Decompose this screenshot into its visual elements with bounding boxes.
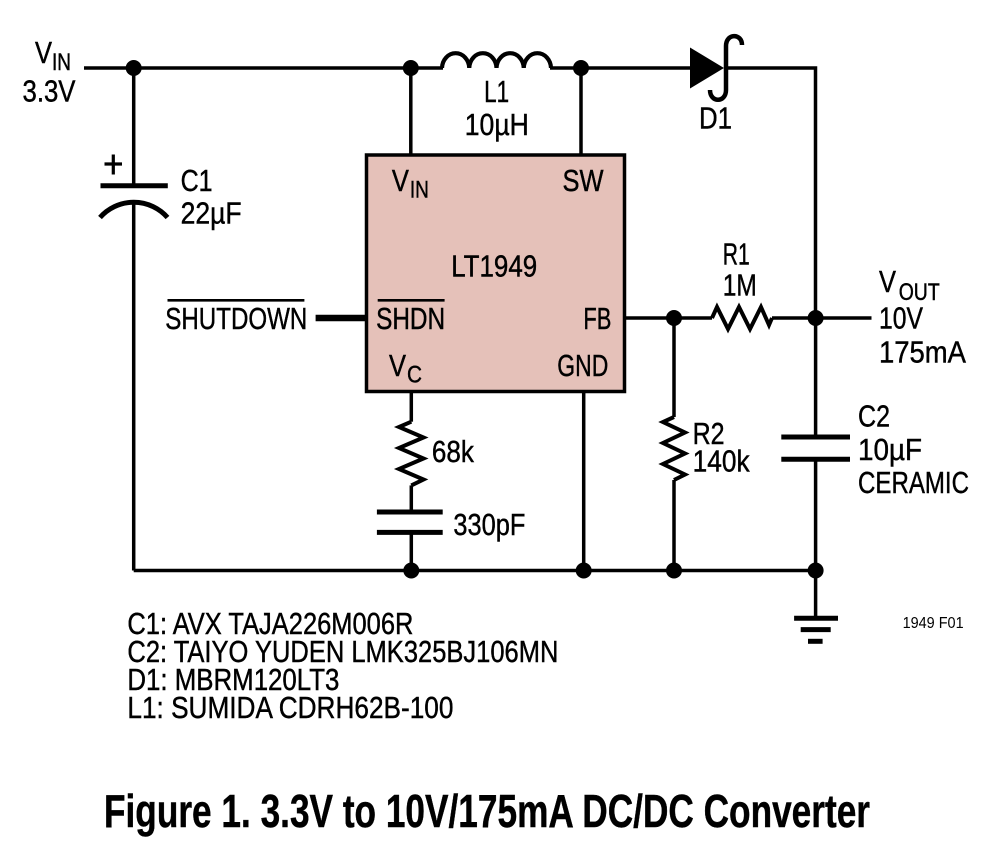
svg-text:3.3V: 3.3V bbox=[23, 74, 76, 109]
wire top rail bbox=[84, 66, 443, 70]
wire 68k to 330pF bbox=[410, 485, 414, 510]
label R1 value bbox=[723, 237, 757, 303]
pin SHDN label bbox=[376, 300, 445, 336]
label C1 value bbox=[181, 163, 242, 230]
capacitor C2 bbox=[781, 437, 850, 459]
svg-text:C: C bbox=[407, 362, 422, 389]
svg-text:R1: R1 bbox=[723, 237, 750, 272]
svg-text:SW: SW bbox=[563, 163, 605, 198]
svg-text:1M: 1M bbox=[723, 267, 757, 302]
resistor R2 bbox=[663, 417, 685, 480]
label R2 value bbox=[693, 416, 750, 479]
ground bbox=[794, 618, 838, 641]
junction FB node bbox=[666, 310, 682, 326]
svg-text:SHUTDOWN: SHUTDOWN bbox=[165, 301, 307, 336]
svg-text:IN: IN bbox=[410, 176, 429, 203]
wire GND pin bbox=[582, 392, 586, 571]
wire C2 to bottom rail bbox=[814, 459, 818, 570]
svg-text:LT1949: LT1949 bbox=[451, 249, 537, 284]
svg-text:1949 F01: 1949 F01 bbox=[903, 615, 964, 632]
pin VC label bbox=[389, 348, 422, 389]
label L1 value bbox=[465, 74, 529, 142]
svg-text:GND: GND bbox=[557, 348, 608, 383]
svg-text:C1: C1 bbox=[181, 163, 213, 198]
svg-text:V: V bbox=[389, 348, 406, 383]
svg-text:330pF: 330pF bbox=[453, 507, 525, 542]
resistor R1 bbox=[712, 307, 772, 329]
svg-text:10µH: 10µH bbox=[465, 107, 529, 142]
svg-text:10µF: 10µF bbox=[858, 432, 922, 467]
wire bottom rail bbox=[134, 569, 816, 573]
node VIN label bbox=[23, 35, 76, 109]
op-amp U1 LT1949 body bbox=[367, 155, 625, 392]
wire top rail right of L1 bbox=[550, 66, 690, 70]
svg-text:22µF: 22µF bbox=[181, 195, 242, 230]
wire left rail bbox=[132, 68, 136, 186]
resistor 68k bbox=[399, 422, 424, 486]
capacitor 330pF bbox=[377, 512, 443, 532]
svg-text:FB: FB bbox=[583, 301, 611, 336]
wire 330pF to bottom rail bbox=[410, 532, 414, 570]
wire SW pin bbox=[579, 68, 583, 155]
wire VIN pin bbox=[409, 68, 413, 155]
wire R1 to output node bbox=[772, 316, 816, 320]
wire output stub bbox=[816, 316, 872, 320]
svg-text:175mA: 175mA bbox=[879, 335, 966, 370]
svg-text:SHDN: SHDN bbox=[376, 301, 445, 336]
wire ground stub bbox=[814, 571, 818, 619]
node SHUTDOWN input label bbox=[165, 300, 307, 336]
svg-text:V: V bbox=[35, 35, 52, 70]
junction VIN pin bbox=[403, 60, 419, 76]
wire FB stub bbox=[624, 316, 712, 320]
svg-text:IN: IN bbox=[52, 49, 71, 76]
wire diode cathode to right corner bbox=[727, 68, 816, 318]
svg-text:Figure 1. 3.3V to 10V/175mA DC: Figure 1. 3.3V to 10V/175mA DC/DC Conver… bbox=[104, 785, 870, 837]
label C2 value bbox=[858, 399, 969, 500]
svg-text:10V: 10V bbox=[879, 301, 923, 336]
node VOUT label bbox=[879, 264, 966, 370]
wire left rail lower bbox=[132, 203, 136, 571]
junction VIN-C1 bbox=[126, 60, 142, 76]
diode D1 bbox=[690, 36, 742, 100]
wire R2 upper bbox=[672, 318, 676, 417]
junction bottom GND bbox=[576, 563, 592, 579]
wire VC pin bbox=[410, 392, 414, 422]
junction bottom C2 bbox=[808, 563, 824, 579]
inductor L1 bbox=[442, 53, 551, 68]
junction bottom R2 bbox=[666, 563, 682, 579]
svg-text:C2: C2 bbox=[858, 399, 890, 434]
svg-text:L1: SUMIDA CDRH62B-100: L1: SUMIDA CDRH62B-100 bbox=[127, 690, 453, 725]
svg-text:V: V bbox=[879, 264, 896, 299]
junction output node bbox=[808, 310, 824, 326]
svg-text:CERAMIC: CERAMIC bbox=[858, 465, 969, 500]
svg-text:V: V bbox=[392, 163, 409, 198]
junction bottom VC bbox=[403, 563, 419, 579]
capacitor C1 bbox=[100, 155, 168, 218]
svg-text:140k: 140k bbox=[693, 444, 750, 479]
svg-text:D1: D1 bbox=[699, 101, 732, 136]
wire SHDN stub bbox=[316, 315, 367, 322]
junction SW-L1 bbox=[573, 60, 589, 76]
pin VIN label bbox=[392, 163, 429, 204]
note parts list bbox=[127, 606, 558, 725]
svg-text:68k: 68k bbox=[432, 434, 474, 469]
wire R2 lower bbox=[672, 480, 676, 571]
svg-text:L1: L1 bbox=[484, 74, 509, 109]
wire output to C2 bbox=[814, 318, 818, 437]
